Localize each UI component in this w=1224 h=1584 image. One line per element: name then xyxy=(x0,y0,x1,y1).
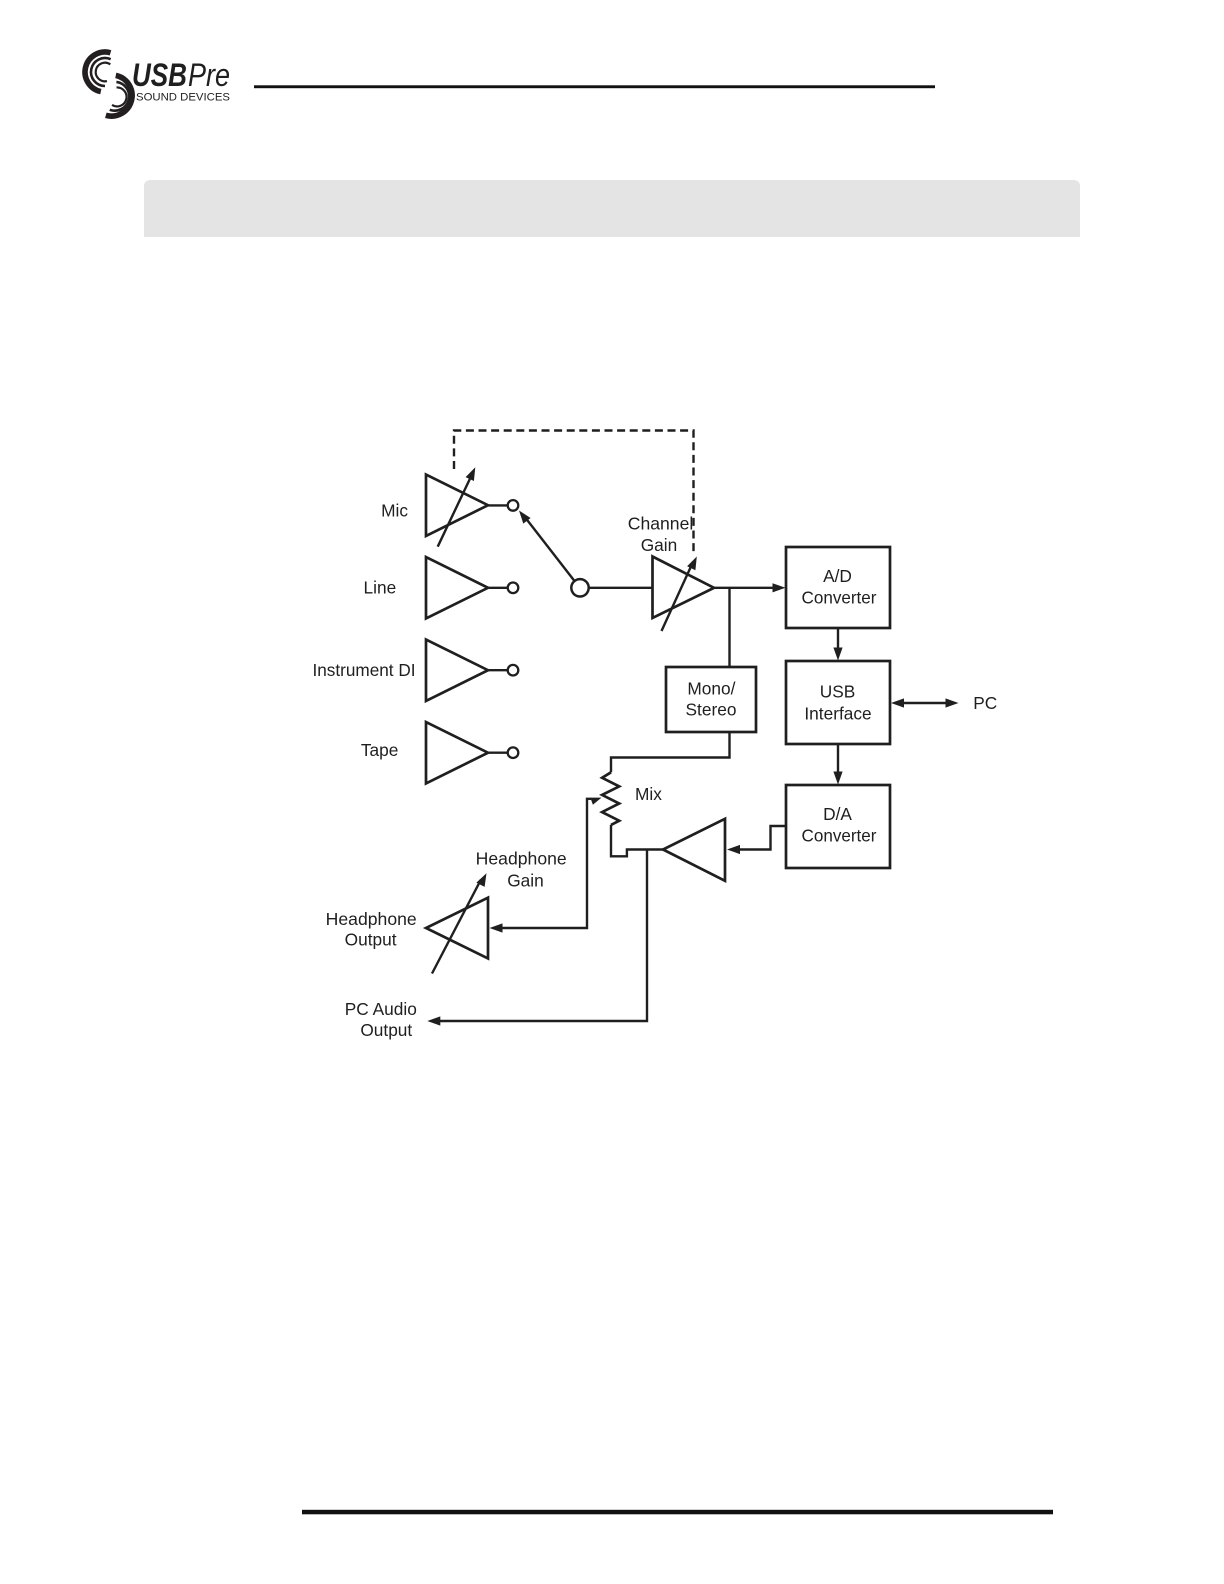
section banner xyxy=(144,180,1080,237)
wire instrument stub xyxy=(488,669,508,671)
amplifier Mic xyxy=(426,467,488,546)
svg-text:Mono/: Mono/ xyxy=(687,679,735,699)
wire mix wiper to headphone amp xyxy=(490,798,602,933)
svg-text:USB: USB xyxy=(132,57,187,93)
wire channel amp to A/D converter xyxy=(714,583,786,592)
dashed gang wire mic-to-channel gain xyxy=(454,431,694,554)
amplifier Instrument DI xyxy=(426,640,488,702)
label Headphone Gain xyxy=(476,849,567,891)
wire tape stub xyxy=(488,752,508,754)
wire mono/stereo to mix pot xyxy=(611,732,730,772)
svg-text:Output: Output xyxy=(345,930,397,950)
amplifier Tape xyxy=(426,722,488,784)
wire USB to PC (bidirectional) xyxy=(891,698,959,707)
footer rule xyxy=(302,1510,1053,1515)
block Mono/Stereo xyxy=(666,667,756,732)
svg-text:Tape: Tape xyxy=(361,740,398,760)
svg-text:Output: Output xyxy=(360,1020,412,1040)
block USB Interface xyxy=(786,661,890,744)
label Channel Gain xyxy=(628,514,694,555)
node line output xyxy=(508,583,519,594)
node instrument output xyxy=(508,665,519,676)
node mic output xyxy=(508,500,519,511)
amplifier Line xyxy=(426,557,488,619)
svg-text:Pre: Pre xyxy=(188,57,230,93)
logo wordmark USBPre xyxy=(132,57,230,93)
wire line stub xyxy=(488,587,508,589)
label Headphone Output xyxy=(326,909,417,950)
svg-text:Gain: Gain xyxy=(507,870,544,890)
svg-text:D/A: D/A xyxy=(823,804,852,824)
block D/A Converter xyxy=(786,785,890,868)
label PC Audio Output xyxy=(345,999,417,1040)
svg-text:USB: USB xyxy=(820,682,856,702)
svg-text:Line: Line xyxy=(364,578,397,598)
svg-text:Stereo: Stereo xyxy=(686,699,737,719)
amplifier Channel Gain xyxy=(653,557,715,632)
switch pole node xyxy=(571,579,588,596)
svg-text:Channel: Channel xyxy=(628,514,694,534)
svg-text:Converter: Converter xyxy=(802,588,877,608)
svg-text:Headphone: Headphone xyxy=(476,849,567,869)
wire pole to channel amp xyxy=(589,587,653,589)
header rule xyxy=(254,85,935,88)
amplifier Headphone Gain xyxy=(426,873,488,973)
svg-text:PC: PC xyxy=(973,693,997,713)
svg-text:Gain: Gain xyxy=(641,535,678,555)
svg-text:Interface: Interface xyxy=(804,703,871,723)
svg-text:PC Audio: PC Audio xyxy=(345,999,417,1019)
svg-text:Headphone: Headphone xyxy=(326,909,417,929)
wire PC audio output xyxy=(427,850,647,1026)
wire D/A converter to amp xyxy=(727,826,786,854)
wire junction down to mono/stereo xyxy=(728,588,730,667)
resistor Mix pot xyxy=(602,772,619,825)
svg-text:Mic: Mic xyxy=(381,500,408,520)
svg-text:Mix: Mix xyxy=(635,784,662,804)
switch arm wire xyxy=(519,511,575,582)
block A/D Converter xyxy=(786,547,890,628)
wire USB to D/A xyxy=(833,744,842,785)
node tape output xyxy=(508,747,519,758)
wire A/D to USB xyxy=(833,628,842,661)
svg-text:SOUND DEVICES: SOUND DEVICES xyxy=(136,92,230,104)
svg-text:A/D: A/D xyxy=(823,566,852,586)
svg-text:Instrument DI: Instrument DI xyxy=(313,660,416,680)
wire mic stub xyxy=(488,504,508,506)
svg-text:Converter: Converter xyxy=(802,826,877,846)
wire mix bottom to D/A amp apex xyxy=(611,825,663,856)
amplifier D/A output xyxy=(663,819,725,881)
logo swirl xyxy=(85,52,132,116)
